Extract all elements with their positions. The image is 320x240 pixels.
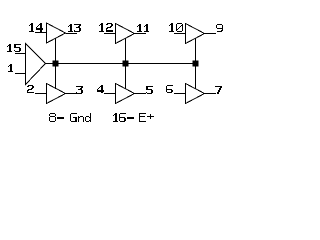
pin 5 label [146,86,153,94]
wire pin 3 output [66,93,78,95]
wire pin 2 input [35,93,47,95]
wire pin 10 input [174,33,186,35]
buffer U1A (pins 14 to 13) [47,23,66,43]
buffer U1C (pins 10 to 9) [186,24,205,44]
wire pin 7 output [205,93,217,95]
pin 8 ground label "8- Gnd" [49,113,91,122]
wire enable tap U1E [125,64,127,89]
junction node 2 [123,61,129,67]
wire enable tap U1B [125,39,127,64]
buffer U1D (pins 2 to 3) [47,84,66,104]
wire enable tap U1D [55,64,57,89]
wire pin 1 input [15,73,26,75]
wire pin 12 input [104,33,116,35]
pin 16 power label "16- E+" [113,113,154,122]
pin 15 label [7,44,21,52]
wire pin 5 output [135,93,147,95]
pin 12 label [99,23,113,32]
enable bus wire [46,63,196,65]
buffer U1F (pins 6 to 7) [186,84,205,104]
pin 2 label [27,85,34,93]
pin 7 label [215,86,222,94]
pin 10 label [169,23,183,32]
wire pin 14 input [35,32,47,34]
pin 11 label [137,24,149,32]
pin 3 label [76,86,83,94]
pin 9 label [216,24,223,32]
wire pin 13 output [66,33,78,35]
wire pin 9 output [205,33,217,35]
wire pin 15 input [15,53,26,55]
pin 6 label [166,85,173,93]
junction node 1 [53,61,59,67]
wire enable tap U1C [195,39,197,64]
wire enable tap U1F [195,64,197,89]
pin 1 label [8,64,13,72]
wire enable tap U1A [55,38,57,63]
junction node 3 [193,61,199,67]
enable gate U1G (pins 15 and 1) [26,44,46,85]
wire pin 6 input [174,93,186,95]
pin 13 label [68,24,81,32]
wire pin 4 input [104,93,116,95]
buffer U1E (pins 4 to 5) [116,84,135,104]
buffer U1B (pins 12 to 11) [116,24,135,44]
wire pin 11 output [135,33,147,35]
pin 14 label [29,23,43,32]
pin 4 label [97,85,104,93]
